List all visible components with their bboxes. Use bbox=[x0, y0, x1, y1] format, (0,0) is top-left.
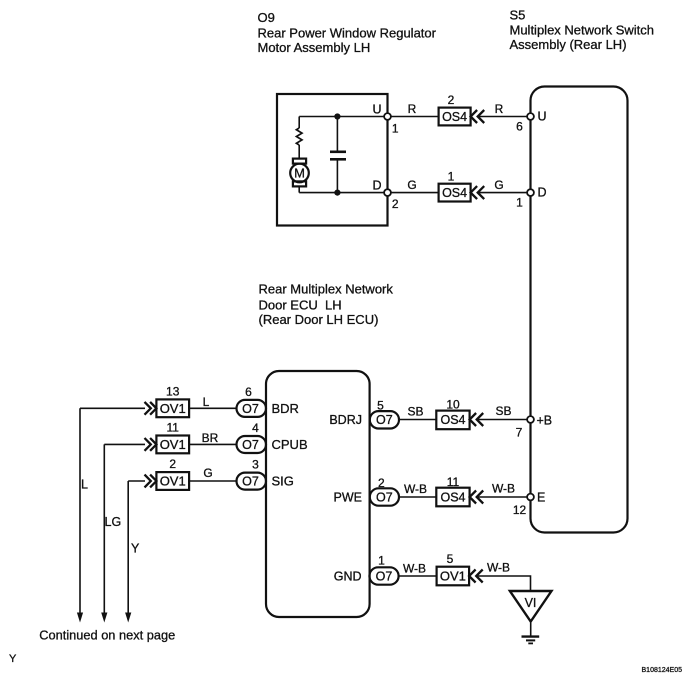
svg-text:OS4: OS4 bbox=[442, 110, 467, 124]
svg-text:1: 1 bbox=[392, 122, 399, 136]
svg-text:O7: O7 bbox=[376, 490, 393, 504]
svg-text:4: 4 bbox=[252, 421, 259, 435]
svg-text:S5: S5 bbox=[510, 7, 526, 22]
svg-text:6: 6 bbox=[245, 385, 252, 399]
svg-text:LG: LG bbox=[105, 515, 122, 529]
svg-text:2: 2 bbox=[169, 457, 176, 471]
svg-text:W-B: W-B bbox=[487, 561, 510, 575]
svg-text:OS4: OS4 bbox=[440, 491, 465, 505]
svg-text:W-B: W-B bbox=[403, 562, 426, 576]
svg-text:5: 5 bbox=[377, 399, 384, 413]
svg-text:2: 2 bbox=[378, 476, 385, 490]
svg-text:L: L bbox=[81, 478, 88, 492]
svg-text:G: G bbox=[407, 178, 416, 192]
svg-text:CPUB: CPUB bbox=[272, 437, 308, 452]
svg-text:11: 11 bbox=[166, 421, 179, 435]
svg-text:BDR: BDR bbox=[272, 401, 299, 416]
svg-text:Y: Y bbox=[131, 542, 140, 556]
svg-text:3: 3 bbox=[252, 458, 259, 472]
svg-text:E: E bbox=[537, 491, 545, 505]
svg-text:O7: O7 bbox=[376, 569, 393, 583]
svg-text:R: R bbox=[495, 102, 504, 116]
svg-text:O7: O7 bbox=[376, 413, 393, 427]
svg-text:2: 2 bbox=[448, 93, 455, 107]
svg-text:D: D bbox=[538, 186, 547, 200]
svg-text:Multiplex Network Switch: Multiplex Network Switch bbox=[510, 23, 655, 38]
svg-text:O7: O7 bbox=[242, 475, 259, 489]
svg-text:G: G bbox=[203, 466, 212, 480]
svg-text:G: G bbox=[494, 178, 503, 192]
svg-text:O7: O7 bbox=[242, 438, 259, 452]
svg-text:Y: Y bbox=[9, 653, 17, 665]
svg-text:U: U bbox=[538, 110, 547, 124]
svg-text:10: 10 bbox=[446, 398, 460, 412]
svg-text:Rear Multiplex Network: Rear Multiplex Network bbox=[259, 281, 394, 296]
svg-text:OV1: OV1 bbox=[160, 474, 186, 489]
svg-text:L: L bbox=[203, 395, 210, 409]
svg-text:7: 7 bbox=[516, 426, 523, 440]
svg-text:SB: SB bbox=[407, 405, 423, 419]
svg-text:W-B: W-B bbox=[492, 482, 515, 496]
svg-text:W-B: W-B bbox=[404, 482, 427, 496]
svg-text:6: 6 bbox=[516, 120, 523, 134]
svg-text:1: 1 bbox=[516, 196, 523, 210]
svg-text:Door ECU LH: Door ECU LH bbox=[259, 298, 342, 313]
svg-text:B108124E05: B108124E05 bbox=[642, 667, 683, 674]
svg-text:2: 2 bbox=[392, 197, 399, 211]
svg-text:O9: O9 bbox=[258, 10, 275, 25]
svg-text:12: 12 bbox=[513, 503, 527, 517]
svg-text:U: U bbox=[373, 103, 382, 117]
svg-text:Assembly (Rear LH): Assembly (Rear LH) bbox=[510, 37, 627, 52]
svg-text:(Rear Door LH ECU): (Rear Door LH ECU) bbox=[259, 312, 379, 327]
svg-text:Motor Assembly LH: Motor Assembly LH bbox=[258, 40, 371, 55]
svg-text:OV1: OV1 bbox=[160, 437, 186, 452]
svg-text:BR: BR bbox=[202, 431, 219, 445]
svg-text:13: 13 bbox=[166, 385, 180, 399]
svg-text:BDRJ: BDRJ bbox=[329, 413, 362, 427]
svg-text:OS4: OS4 bbox=[440, 413, 465, 427]
svg-text:1: 1 bbox=[378, 554, 385, 568]
svg-text:Rear Power Window Regulator: Rear Power Window Regulator bbox=[258, 26, 437, 41]
svg-text:OS4: OS4 bbox=[442, 186, 467, 200]
svg-text:GND: GND bbox=[334, 570, 362, 584]
svg-text:11: 11 bbox=[447, 475, 460, 489]
svg-text:R: R bbox=[408, 102, 417, 116]
svg-text:SB: SB bbox=[495, 404, 511, 418]
svg-text:O7: O7 bbox=[242, 402, 259, 416]
svg-text:Continued on next page: Continued on next page bbox=[39, 627, 175, 642]
svg-text:1: 1 bbox=[448, 169, 455, 183]
svg-text:PWE: PWE bbox=[334, 491, 362, 505]
svg-text:5: 5 bbox=[447, 552, 454, 566]
svg-text:OV1: OV1 bbox=[160, 401, 186, 416]
svg-text:SIG: SIG bbox=[272, 474, 294, 489]
svg-text:OV1: OV1 bbox=[440, 569, 466, 584]
svg-text:+B: +B bbox=[537, 414, 553, 428]
svg-text:M: M bbox=[294, 166, 305, 181]
svg-text:VI: VI bbox=[525, 596, 537, 610]
svg-text:D: D bbox=[373, 179, 382, 193]
